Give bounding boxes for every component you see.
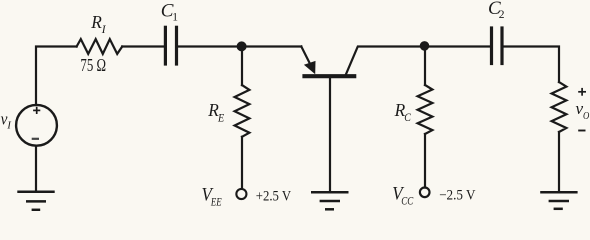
svg-text:−2.5 V: −2.5 V	[439, 187, 476, 203]
svg-text:1: 1	[172, 12, 178, 24]
svg-text:I: I	[6, 120, 12, 132]
svg-text:E: E	[217, 112, 224, 124]
svg-text:+2.5 V: +2.5 V	[256, 188, 292, 204]
svg-text:75 Ω: 75 Ω	[80, 55, 106, 75]
svg-text:2: 2	[499, 9, 505, 21]
svg-text:R: R	[90, 12, 102, 32]
svg-text:C: C	[404, 112, 411, 124]
svg-text:CC: CC	[401, 196, 413, 208]
svg-text:I: I	[101, 24, 107, 36]
svg-text:EE: EE	[210, 197, 222, 209]
svg-text:O: O	[583, 110, 589, 122]
